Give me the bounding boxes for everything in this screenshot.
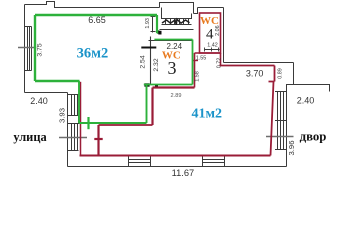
svg-text:1.58: 1.58 — [194, 71, 200, 82]
green lower bottom — [79, 122, 147, 124]
bottom window 1 — [129, 156, 151, 167]
red left vertical — [80, 82, 82, 156]
dim tick lower-left window — [59, 137, 87, 139]
outer wall wc4 left stub — [194, 8, 198, 14]
outer wall bottom — [68, 166, 287, 168]
svg-text:4: 4 — [206, 26, 214, 42]
dim tick left window — [18, 47, 36, 49]
staircase steps band — [160, 19, 194, 30]
outer wall wc4 right — [223, 8, 225, 63]
svg-text:0.89: 0.89 — [278, 68, 284, 79]
svg-text:3.93: 3.93 — [58, 108, 67, 123]
outer wall left vertical — [24, 5, 26, 93]
svg-text:1.93: 1.93 — [145, 18, 151, 29]
green bottom upper part — [35, 80, 80, 82]
green room top — [35, 14, 157, 16]
green cross tick — [87, 117, 89, 129]
dim line 1.93 vertical — [151, 16, 156, 33]
red left-mid vertical — [97, 125, 99, 156]
red corridor right corner — [269, 66, 275, 82]
green left vertical — [34, 15, 36, 81]
svg-text:3: 3 — [168, 58, 177, 78]
dim tick right window — [266, 136, 294, 138]
window sill box lower-left — [68, 116, 79, 124]
dim line 2.40 right — [294, 85, 330, 92]
red cross tick — [94, 138, 102, 140]
staircase zigzag arrow — [162, 19, 190, 25]
red right vertical — [271, 82, 274, 156]
green right vertical to door — [156, 15, 158, 33]
red wc4 bottom extension — [195, 52, 221, 54]
outer wall wc4 top — [198, 7, 224, 9]
svg-text:2.40: 2.40 — [297, 95, 315, 105]
wc4 red box — [200, 13, 221, 53]
svg-text:3.96: 3.96 — [287, 141, 296, 156]
red right edge down — [220, 53, 222, 66]
svg-text:1.55: 1.55 — [196, 55, 207, 61]
outer wall step bottom-left — [25, 92, 68, 94]
outer wall right lower vertical — [286, 92, 288, 167]
wc3 left wall — [150, 37, 152, 85]
red horizontal mid — [99, 124, 153, 126]
svg-text:36м2: 36м2 — [77, 45, 109, 61]
svg-text:WC: WC — [200, 15, 219, 27]
svg-text:3.75: 3.75 — [36, 43, 43, 56]
bottom window 2 — [203, 156, 225, 167]
window left wall hatch — [25, 27, 32, 71]
svg-text:улица: улица — [13, 130, 46, 144]
red vertical under wc4 — [194, 53, 196, 88]
right wall window hatch — [275, 92, 287, 150]
red corridor line — [220, 65, 275, 67]
wc3 top black line — [149, 40, 193, 42]
red horizontal under wc3 — [153, 86, 195, 88]
outer wall top with notch — [25, 2, 160, 8]
svg-text:0.72: 0.72 — [217, 58, 223, 69]
svg-text:3.70: 3.70 — [246, 68, 264, 78]
red mid vertical — [151, 88, 153, 126]
staircase trough — [162, 8, 192, 19]
svg-text:двор: двор — [300, 130, 327, 144]
red bottom — [80, 155, 271, 157]
green mid vertical up — [146, 85, 148, 124]
outer wall lower-left vertical — [67, 93, 69, 167]
wc3 green box — [144, 40, 193, 85]
svg-text:2.89: 2.89 — [171, 93, 182, 99]
svg-text:41м2: 41м2 — [192, 107, 223, 122]
green step down — [78, 81, 80, 123]
svg-text:2.40: 2.40 — [30, 96, 48, 106]
door jamb square entry — [157, 30, 159, 33]
outer wall corridor top — [224, 62, 294, 64]
svg-text:6.65: 6.65 — [88, 15, 106, 25]
svg-text:1.42: 1.42 — [207, 42, 218, 48]
svg-text:2.54: 2.54 — [140, 55, 147, 68]
svg-text:2.24: 2.24 — [167, 42, 183, 51]
dim line 1.42 — [205, 48, 220, 52]
svg-text:11.67: 11.67 — [172, 168, 195, 178]
tick cross on wc3 wall — [141, 47, 156, 49]
svg-text:2.32: 2.32 — [153, 58, 160, 71]
window lower-left wall hatch — [68, 95, 79, 151]
staircase outer box — [160, 3, 194, 14]
outer wall right step — [287, 63, 294, 92]
red tick on that wall — [192, 60, 198, 62]
door jambs wc3 bottom — [144, 83, 149, 86]
